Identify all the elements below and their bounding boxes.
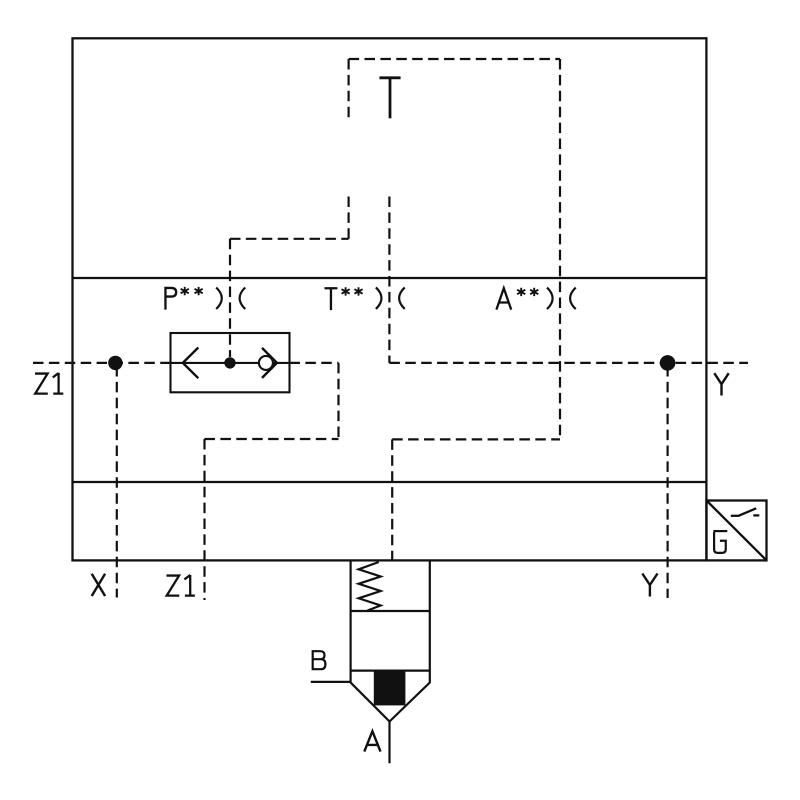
wire B port line	[311, 681, 351, 683]
gauge switch symbol	[731, 508, 760, 516]
label X bottom	[92, 574, 105, 596]
cartridge valve separator lower	[351, 669, 430, 671]
wire dashed horizontal to P branch	[230, 238, 349, 240]
label Y bottom	[642, 574, 657, 597]
cartridge valve poppet (black)	[374, 671, 406, 706]
gauge box G	[707, 501, 767, 561]
wire dashed vertical left lower segment	[348, 197, 350, 239]
label A**	[496, 288, 511, 309]
manifold block outline	[73, 38, 707, 560]
wire dashed vertical upper-left segment	[348, 59, 350, 120]
check valve ball	[259, 356, 273, 370]
wire dashed horizontal A to valve pilot	[392, 438, 560, 440]
block divider line lower	[73, 481, 707, 483]
wire horizontal to Z1 bottom port	[205, 438, 339, 440]
wire X port vertical	[116, 366, 118, 598]
check valve V1 body	[171, 333, 290, 392]
node junction dot Z1	[108, 356, 122, 370]
wire A port line	[388, 722, 390, 764]
check valve left chevron	[183, 348, 199, 379]
wire dashed Y drain horizontal	[389, 362, 748, 364]
label Z1 bottom	[167, 575, 195, 596]
cartridge valve separator upper	[351, 610, 430, 612]
label G	[713, 531, 727, 553]
check valve seat chevron	[262, 348, 277, 378]
cartridge valve spring	[359, 562, 381, 611]
check valve flow line	[171, 362, 290, 364]
label orifice parens T	[376, 287, 382, 309]
label Z1 left	[35, 373, 63, 394]
pilot line dashed top rectangle horizontal	[349, 58, 560, 60]
node junction dot Y	[660, 355, 676, 371]
wire P pilot vertical into check valve	[229, 239, 231, 357]
label Y right	[714, 373, 728, 395]
node T symbol	[379, 78, 400, 119]
wire T pilot vertical	[388, 197, 390, 363]
wire check valve outlet horizontal	[290, 362, 339, 364]
label orifice parens A	[547, 288, 553, 310]
wire Z1 bottom port vertical	[203, 439, 205, 600]
label A bottom	[364, 731, 380, 751]
check valve pilot dot	[224, 357, 235, 368]
label T**	[325, 288, 338, 310]
wire vertical drop from check valve outlet	[337, 363, 339, 439]
wire dashed Z1 horizontal left	[33, 362, 171, 364]
wire A pilot vertical	[559, 59, 561, 439]
label B	[312, 650, 326, 670]
block divider line upper	[73, 277, 707, 279]
label P**	[165, 287, 177, 310]
wire Y port vertical	[666, 366, 668, 598]
cartridge valve body	[351, 560, 430, 721]
label orifice parens P	[216, 288, 222, 310]
wire valve pilot vertical	[391, 439, 393, 559]
